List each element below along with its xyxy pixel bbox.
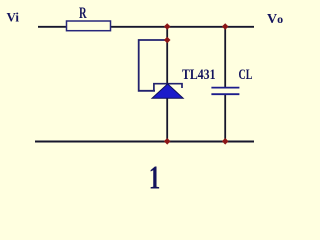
svg-text:Vo: Vo bbox=[267, 12, 283, 27]
svg-text:CL: CL bbox=[239, 67, 253, 83]
wire capacitor top lead bbox=[224, 26, 226, 88]
svg-text:TL431: TL431 bbox=[182, 67, 216, 83]
capacitor CL bottom plate bbox=[211, 93, 239, 95]
wire top rail left segment (Vi to resistor) bbox=[38, 26, 67, 28]
svg-text:R: R bbox=[79, 5, 87, 22]
junction dot at TL431 anode (bottom rail) bbox=[164, 138, 171, 145]
wire TL431 cathode/anode vertical bbox=[166, 26, 168, 142]
junction dot at resistor/TL431 node (top rail) bbox=[164, 23, 171, 30]
wire TL431 reference feedback loop bbox=[139, 40, 168, 91]
junction dot at capacitor node (top rail) bbox=[222, 23, 229, 30]
wire bottom rail bbox=[35, 141, 254, 143]
junction dot at capacitor bottom (bottom rail) bbox=[222, 138, 229, 145]
TL431 anode triangle bbox=[152, 84, 183, 98]
wire top rail right segment (resistor to Vo) bbox=[111, 26, 255, 28]
resistor R body bbox=[67, 21, 111, 31]
capacitor CL top plate bbox=[211, 87, 239, 89]
svg-text:1: 1 bbox=[149, 160, 161, 194]
svg-text:Vi: Vi bbox=[7, 10, 20, 25]
TL431 cathode bar with end ticks bbox=[154, 84, 182, 91]
wire capacitor bottom lead bbox=[224, 94, 226, 141]
junction dot at reference loop node bbox=[164, 37, 171, 44]
